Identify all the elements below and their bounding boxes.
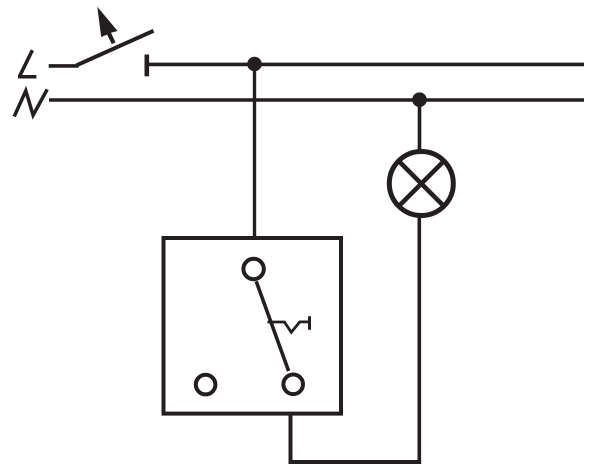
switch lever <box>256 281 288 371</box>
contact circle bottom-left <box>196 375 216 395</box>
wire: switch box to bottom wire <box>289 414 293 465</box>
wire: N dot to lamp <box>418 100 422 152</box>
switch box <box>164 238 342 414</box>
label N <box>14 89 47 116</box>
junction dot L <box>247 57 262 72</box>
L line <box>147 63 584 67</box>
N line <box>49 98 584 102</box>
label L <box>18 50 36 77</box>
contact circle top <box>243 259 263 279</box>
lamp circle <box>389 152 453 216</box>
junction dot N <box>412 92 427 107</box>
contact circle bottom-right <box>283 375 303 395</box>
actuator zigzag <box>268 322 309 332</box>
wire: L stub <box>49 64 79 68</box>
actuation arrow <box>97 7 117 44</box>
wire: lamp to bottom corner <box>417 215 421 464</box>
actuator end bar <box>308 316 311 330</box>
lamp X stroke 2 <box>399 162 443 206</box>
lamp X stroke 1 <box>399 162 443 206</box>
switch blade <box>76 31 153 66</box>
wire: bottom horizontal <box>289 460 421 464</box>
wire: L dot to switch box <box>253 64 256 238</box>
terminal bar <box>145 55 150 77</box>
